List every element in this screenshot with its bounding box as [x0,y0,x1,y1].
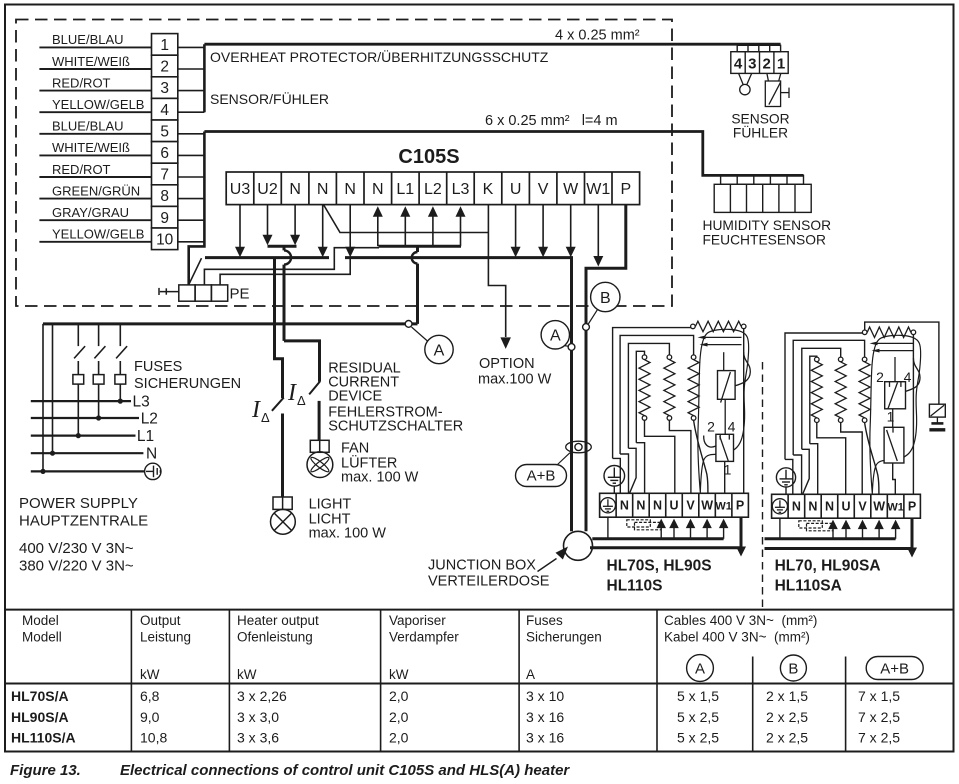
fan branch riser with hop [284,246,320,382]
svg-text:N: N [808,500,817,514]
pointer B [588,310,597,324]
svg-text:7: 7 [160,167,169,184]
heater HL70S bus 2 and P arrow [590,546,741,549]
cable label circle A mid [541,321,569,349]
svg-text:HL110S: HL110S [607,578,663,595]
option arrow [500,337,511,349]
svg-text:Output: Output [140,613,181,628]
heater HL70SA frame wire 2 [793,340,864,455]
svg-text:1: 1 [887,409,895,425]
svg-text:U: U [510,181,522,198]
C105S terminal strip [226,172,639,205]
svg-text:SICHERUNGEN: SICHERUNGEN [134,376,241,392]
stubs from boxes to cable bus [178,46,205,48]
heater HL70SA coil2 drop to V [841,423,863,495]
fan switch blade [309,382,320,395]
svg-text:SENSOR/FÜHLER: SENSOR/FÜHLER [210,90,329,107]
wire colour labels rows 1-10 [52,32,144,241]
supply feed riser with hop [416,246,419,324]
svg-text:C105S: C105S [398,146,459,168]
pointer A mid [565,345,569,348]
svg-text:N: N [653,499,662,513]
svg-text:380 V/220 V 3N~: 380 V/220 V 3N~ [19,558,134,575]
svg-text:N: N [317,181,329,198]
heater HL70S limiter labels 2 4 1 [707,419,736,478]
heater HL70SA thermostat labels 2 4 [876,369,912,385]
svg-text:A: A [695,661,705,678]
svg-text:W: W [873,500,885,514]
svg-text:VERTEILERDOSE: VERTEILERDOSE [428,574,550,590]
label LIGHT LICHT [309,497,387,542]
label HUMIDITY SENSOR [703,218,832,248]
L feed bus [379,245,462,248]
heater HL70S blob outline [698,329,749,492]
svg-text:HL70S/A: HL70S/A [11,688,69,704]
label HL70S HL90S HL110S [607,558,712,595]
svg-text:3 x 10: 3 x 10 [526,688,564,704]
table header texts [22,613,817,682]
svg-text:Modell: Modell [22,630,62,645]
svg-text:3 x 16: 3 x 16 [526,709,564,725]
svg-text:U2: U2 [257,181,278,198]
heater HL70SA blob outline [870,335,921,493]
svg-text:2,0: 2,0 [389,709,409,725]
svg-text:Electrical connections of cont: Electrical connections of control unit C… [120,762,570,779]
svg-text:I: I [287,380,297,406]
wire U3 down [239,205,241,247]
svg-text:Vaporiser: Vaporiser [389,613,446,628]
heater HL70SA bus 1 [765,537,896,540]
figure caption [10,762,570,779]
table header divider [5,683,954,685]
label OPTION [478,356,552,388]
dashed divider between heater variants [762,362,764,608]
wire N3 down [349,205,351,248]
heater HL70S limiter curve [704,436,716,448]
heater HL70SA frame wire 2 drop [793,455,801,494]
svg-text:Figure 13.: Figure 13. [10,762,81,779]
svg-text:Verdampfer: Verdampfer [389,630,459,645]
svg-text:L3: L3 [452,181,470,198]
heater HL70SA frame wire 1 [785,333,863,459]
svg-text:V: V [858,500,867,514]
svg-text:HL110SA: HL110SA [775,578,842,595]
svg-text:Fuses: Fuses [526,613,563,628]
heater HL70SA frame wire 4 [810,356,817,444]
ellipse marker A+B [566,441,592,453]
cable A riser [570,256,573,531]
svg-text:OPTION: OPTION [479,356,535,372]
svg-text:HL110S/A: HL110S/A [11,730,76,746]
heater HL70SA thermostat feed [894,357,896,382]
label JUNCTION BOX [428,558,550,590]
heater HL70S vaporiser resistor [691,324,696,329]
svg-text:HL70, HL90SA: HL70, HL90SA [775,558,881,575]
svg-text:FÜHLER: FÜHLER [733,124,788,141]
svg-text:YELLOW/GELB: YELLOW/GELB [52,97,144,112]
svg-text:7 x 1,5: 7 x 1,5 [858,688,900,704]
svg-text:HL90S/A: HL90S/A [11,709,69,725]
ring marker on cable A [568,344,575,351]
svg-text:kW: kW [140,667,160,682]
heater HL70SA element coil 3 [862,357,867,362]
heater HL70S terminal strip [600,493,749,517]
fan wire down [318,401,321,440]
svg-text:N: N [792,500,801,514]
svg-text:A+B: A+B [880,661,909,678]
fuse branches L1 L2 L3 [77,324,79,346]
heater HL70S element coil 1 [642,355,647,360]
svg-text:L1: L1 [396,181,414,198]
svg-text:N: N [344,181,356,198]
svg-text:B: B [788,661,798,678]
ring marker on cable B [583,324,590,331]
heater HL70S right riser to P [743,329,745,494]
heater HL70S coil3 curve to W [694,420,708,493]
svg-text:HAUPTZENTRALE: HAUPTZENTRALE [19,513,148,530]
heater HL70S element coil 2 [667,355,672,360]
table circled A [687,655,714,682]
svg-text:OVERHEAT PROTECTOR/ÜBERHITZUNG: OVERHEAT PROTECTOR/ÜBERHITZUNGSSCHUTZ [210,48,549,65]
svg-text:5 x 2,5: 5 x 2,5 [677,730,719,746]
heater HL70SA limiter drop to W1 [893,463,896,494]
heater HL70SA feed arrows [832,529,834,539]
table data rows [11,688,900,746]
heater HL70S thermostat to limiter wire [724,399,726,434]
svg-text:N: N [825,500,834,514]
labels L3 L2 L1 N [133,394,158,463]
svg-text:Heater output: Heater output [237,613,319,628]
cable label circle A near option [425,335,453,363]
heater HL70S frame wire 2 drop [620,454,628,493]
svg-text:10,8: 10,8 [140,730,167,746]
svg-text:FAN: FAN [341,441,369,457]
svg-text:SENSOR: SENSOR [731,112,789,127]
heater HL70SA coil1 drop to U [817,423,846,495]
terminal boxes 1-10 [152,34,178,56]
light switch blade [272,398,284,411]
svg-text:W1: W1 [586,181,610,198]
heater HL70S limiter drop to W1 [724,461,726,493]
svg-text:max. 100 W: max. 100 W [309,526,387,542]
heater HL70SA coil3 curve to W [865,423,879,495]
diagonal bus end to PE [189,258,202,284]
svg-text:Δ: Δ [297,393,306,408]
dashed control-cabinet box [16,20,672,307]
sensor connector block 4-3-2-1 [731,45,788,73]
thermistor sensor symbol [739,73,752,94]
svg-text:P: P [620,181,631,198]
svg-text:W1: W1 [715,501,732,513]
heater HL70S thermostat feed [723,352,725,370]
svg-text:JUNCTION BOX: JUNCTION BOX [428,558,536,574]
svg-text:DEVICE: DEVICE [328,388,382,404]
supply earth symbol [145,463,161,479]
svg-text:P: P [908,500,916,514]
svg-text:YELLOW/GELB: YELLOW/GELB [52,227,144,242]
svg-text:A: A [526,667,535,682]
svg-text:2: 2 [763,55,771,72]
svg-text:BLUE/BLAU: BLUE/BLAU [52,119,124,134]
svg-text:Model: Model [22,613,59,628]
svg-text:Δ: Δ [261,410,270,425]
heater HL70SA thermostat box [885,382,906,409]
svg-text:4: 4 [728,419,736,435]
fan-light sub bus [268,245,297,248]
heater HL70S earth drop [607,517,609,539]
cable marker A ring [405,321,412,328]
wire U2 down [267,205,269,235]
svg-text:7 x 2,5: 7 x 2,5 [858,709,900,725]
svg-text:Cables 400 V 3N~ (mm²): Cables 400 V 3N~ (mm²) [664,613,817,628]
svg-text:N: N [620,499,629,513]
wire W1 down [597,205,599,256]
label FUSES SICHERUNGEN [134,359,241,392]
svg-text:3: 3 [160,80,169,97]
svg-text:SCHUTZSCHALTER: SCHUTZSCHALTER [328,418,463,434]
heater HL70S frame wire 3 drop [628,448,636,493]
heater HL70S element coil 3 [691,355,696,360]
svg-text:WHITE/WEIß: WHITE/WEIß [52,54,130,69]
heater HL70S thermostat box [718,371,736,400]
fan symbol [307,440,333,477]
heater HL70SA right riser to P [912,335,914,495]
svg-text:kW: kW [237,667,257,682]
svg-text:BLUE/BLAU: BLUE/BLAU [52,32,124,47]
svg-text:A+B: A+B [527,468,556,485]
svg-text:2: 2 [707,419,715,435]
humidity sensor connector [714,175,811,212]
svg-text:W1: W1 [887,502,904,514]
svg-text:I: I [251,397,261,423]
svg-text:GREEN/GRÜN: GREEN/GRÜN [52,183,140,198]
cable bus for boxes 5-10 and PE tail [189,132,205,285]
svg-text:1: 1 [777,55,785,72]
4 x 0.25 mm2 sensor cable [204,43,780,46]
svg-text:5: 5 [160,123,169,140]
wires from colour labels to terminal boxes [39,46,151,48]
supply N riser [52,324,54,453]
svg-text:L2: L2 [424,181,442,198]
svg-text:2 x 2,5: 2 x 2,5 [766,709,808,725]
heater HL70SA bus 2 and P arrow [765,547,913,550]
svg-text:3: 3 [748,55,756,72]
heater HL70S hook wire [735,352,750,386]
svg-text:LIGHT: LIGHT [309,497,352,513]
heater HL70SA N jumpers [799,521,823,528]
wire N2 diagonal to option [324,205,489,233]
supply lines L3 L2 L1 N PE [31,400,131,402]
svg-text:Kabel 400 V 3N~ (mm²): Kabel 400 V 3N~ (mm²) [664,630,810,645]
heater HL70SA limiter box [884,427,904,463]
svg-text:L3: L3 [133,394,150,411]
heater HL70SA hairpin element 2 [878,350,913,352]
PE wire 2 [220,258,350,285]
svg-text:Ofenleistung: Ofenleistung [237,630,313,645]
svg-text:400 V/230 V 3N~: 400 V/230 V 3N~ [19,540,134,557]
heater HL70S bus 1 [592,537,723,540]
svg-text:PE: PE [230,286,250,303]
light symbol [271,497,296,534]
svg-text:kW: kW [389,667,409,682]
heater HL70S frame wire 1 [613,328,691,459]
heater HL70S hairpin element 2 [706,344,742,346]
svg-text:1: 1 [160,37,169,54]
svg-text:3 x 16: 3 x 16 [526,730,564,746]
svg-text:max.100 W: max.100 W [478,372,552,388]
main bus left segment [205,256,329,259]
heater HL70SA element coil 1 [815,357,820,362]
svg-text:U: U [841,500,850,514]
svg-text:HUMIDITY SENSOR: HUMIDITY SENSOR [703,218,832,233]
heater HL70S frame wire 4 drop [636,443,644,494]
svg-text:4: 4 [160,102,169,119]
svg-text:5 x 2,5: 5 x 2,5 [677,709,719,725]
svg-text:FUSES: FUSES [134,359,182,375]
svg-text:6,8: 6,8 [140,688,160,704]
heater HL70SA link 1 to limiter [892,409,894,428]
svg-text:2: 2 [160,59,169,76]
label RESIDUAL CURRENT DEVICE [328,361,463,435]
heater HL70S frame wire 2 [620,335,694,454]
heater HL70S hairpin element 1 [704,336,742,338]
svg-text:U3: U3 [230,181,251,198]
heater HL70S coil2 drop to V [669,420,691,493]
svg-text:U: U [669,499,678,513]
heater HL70SA frame wire 1 drop [785,459,793,494]
table stadium A+B [866,657,923,680]
light branch from bus [275,258,283,398]
label HL70 HL90SA HL110SA [775,558,881,595]
heater HL70SA element coil 2 [838,357,843,362]
wire P and cable B riser [586,205,626,532]
light wire down [281,414,284,498]
table top rule [5,609,954,611]
svg-text:P: P [736,499,744,513]
heater HL70SA vaporiser resistor [862,330,867,335]
svg-text:4 x 0.25 mm²: 4 x 0.25 mm² [555,28,640,44]
svg-text:5 x 1,5: 5 x 1,5 [677,688,719,704]
svg-text:WHITE/WEIß: WHITE/WEIß [52,140,130,155]
svg-text:7 x 2,5: 7 x 2,5 [858,730,900,746]
svg-text:W: W [701,499,713,513]
6 x 0.25 mm2 humidity cable [204,132,803,176]
heater HL70S earth circle upper [604,466,625,487]
stadium label A+B [516,465,567,487]
heater HL70S N jumpers [627,520,651,527]
table circled B [780,655,806,681]
PE terminal block [159,285,228,301]
svg-text:2 x 1,5: 2 x 1,5 [766,688,808,704]
overheat protector switch symbol [765,73,789,106]
svg-text:RED/ROT: RED/ROT [52,162,111,177]
svg-text:Sicherungen: Sicherungen [526,630,602,645]
svg-text:B: B [600,290,611,307]
svg-text:2,0: 2,0 [389,688,409,704]
svg-text:3 x 3,0: 3 x 3,0 [237,709,279,725]
svg-text:A: A [434,342,445,359]
supply feed line [43,322,418,325]
heater HL70S earth stem [613,486,615,493]
svg-text:HL70S, HL90S: HL70S, HL90S [607,558,712,575]
main bus right segment [345,256,572,259]
svg-text:L2: L2 [141,411,158,428]
svg-text:N: N [372,181,384,198]
svg-text:4: 4 [734,55,743,72]
junction box circle [564,531,593,560]
svg-text:V: V [538,181,549,198]
PE wire 1 [204,248,379,285]
pointer to A circle [412,327,429,342]
heater HL70S frame wire 3 [628,343,669,448]
heater HL70SA frame wire 3 [802,348,841,449]
svg-text:POWER SUPPLY: POWER SUPPLY [19,495,138,512]
heater HL70S coil1 drop to U [645,420,675,493]
heater HL70S limiter box [716,434,734,461]
wire N2 down [322,205,324,248]
heater HL70S feed arrows [660,528,662,539]
svg-text:9,0: 9,0 [140,709,160,725]
table column rules [130,610,132,752]
heater HL70SA earth drop [779,518,781,539]
svg-text:V: V [686,499,695,513]
svg-text:2 x 2,5: 2 x 2,5 [766,730,808,746]
svg-text:9: 9 [160,210,169,227]
svg-text:FEUCHTESENSOR: FEUCHTESENSOR [703,233,826,248]
heater HL70SA frame wire 4 drop [810,444,818,495]
wire N1 down [294,205,296,235]
junction pointer arrow [538,559,557,572]
heater HL70SA external contactor [929,404,945,417]
svg-text:8: 8 [160,188,169,205]
arrows up into N L1 L2 L3 [377,215,379,246]
heater HL70SA earth circle upper [776,468,795,487]
label SENSOR FUHLER [731,112,789,141]
label FAN LUFTER [341,441,419,486]
cable bus for boxes 1-4 [203,44,206,112]
label POWER SUPPLY [19,495,148,575]
svg-text:6 x 0.25 mm² l=4 m: 6 x 0.25 mm² l=4 m [485,113,618,129]
heater HL70SA terminal strip [772,494,921,518]
svg-text:K: K [483,181,494,198]
supply PE riser [42,324,44,472]
svg-text:3 x 2,26: 3 x 2,26 [237,688,287,704]
heater HL70SA top wire to contactor [865,322,939,404]
svg-text:W: W [563,181,579,198]
heater HL70SA frame wire 3 drop [802,449,809,494]
heater HL70SA hook wire [906,358,921,391]
svg-text:3 x 3,6: 3 x 3,6 [237,730,279,746]
svg-text:RED/ROT: RED/ROT [52,75,111,90]
svg-text:N: N [289,181,301,198]
heater HL70SA earth stem [785,487,787,494]
svg-text:2: 2 [876,369,884,385]
heater HL70S frame wire 4 [636,351,644,442]
svg-text:max. 100 W: max. 100 W [341,470,419,486]
svg-text:GRAY/GRAU: GRAY/GRAU [52,205,129,220]
wire K to option [488,205,505,337]
svg-text:N: N [146,446,157,463]
svg-text:6: 6 [160,145,169,162]
heater HL70S frame wire 1 drop [613,458,621,493]
svg-text:A: A [550,328,561,345]
svg-text:Leistung: Leistung [140,630,191,645]
svg-text:2,0: 2,0 [389,730,409,746]
svg-text:L1: L1 [137,428,154,445]
heater HL70SA hairpin element 1 [876,342,913,344]
wires U V W down [515,205,517,247]
svg-text:N: N [636,499,645,513]
